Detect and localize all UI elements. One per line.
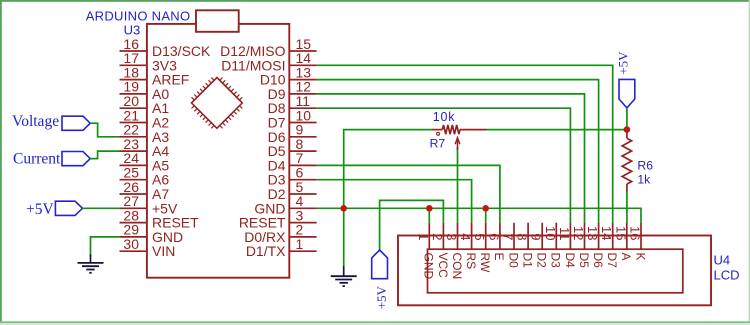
U3 pin 21 A2 — [120, 107, 170, 130]
wire +5V to pin 27 — [83, 207, 120, 209]
flag Voltage shape — [62, 116, 90, 130]
wire +5V flag to node — [626, 108, 628, 130]
svg-text:3: 3 — [444, 233, 459, 240]
svg-text:1k: 1k — [637, 173, 651, 187]
resistor R6 1k — [622, 131, 631, 192]
power flag +5V LCD shape — [372, 250, 388, 279]
wire pin 7 D4 to LCD E — [317, 165, 500, 222]
svg-text:8: 8 — [515, 233, 530, 240]
wire R7 right to +5V node — [486, 129, 627, 131]
power flag +5V top right shape — [619, 79, 635, 108]
U3 pin 25 A6 — [120, 165, 170, 188]
svg-text:Current: Current — [13, 151, 61, 168]
svg-text:1: 1 — [416, 233, 431, 240]
svg-text:11: 11 — [557, 227, 572, 241]
wire Current to pin 23 A4 — [90, 151, 119, 159]
svg-text:13: 13 — [585, 226, 600, 240]
wire GND bus pin 4 to LCD K — [317, 208, 641, 222]
svg-text:GND: GND — [422, 253, 436, 280]
wire R6 bottom to LCD A — [626, 192, 628, 223]
svg-text:9: 9 — [529, 233, 544, 240]
U3 pin 28 RESET — [120, 207, 200, 230]
U3 pin 27 +5V — [120, 193, 178, 216]
svg-text:7: 7 — [501, 233, 516, 240]
svg-text:2: 2 — [430, 233, 445, 240]
U3 pin 13 D10 — [260, 64, 317, 87]
LCD pin 7 D0 — [501, 223, 521, 268]
LCD pin 5 RW — [472, 223, 492, 273]
U3 pin 1 D1/TX — [246, 236, 317, 259]
U3 pin 12 D9 — [268, 79, 317, 102]
wire LCD RW pin 5 to bus — [485, 208, 487, 222]
page border right — [749, 0, 750, 325]
svg-text:5: 5 — [472, 233, 487, 240]
svg-text:A: A — [619, 253, 633, 261]
wire pin 6 D3 to LCD RS — [317, 180, 472, 223]
wire R7 wiper to LCD CON — [457, 147, 459, 223]
U3 pin 8 D5 — [268, 136, 317, 159]
U3 pin 5 D2 — [268, 179, 317, 202]
U3 pin 19 A0 — [120, 79, 170, 102]
U3 usb connector rectangle — [196, 10, 239, 32]
U3 pin 18 AREF — [120, 64, 190, 87]
svg-text:VCC: VCC — [436, 253, 450, 279]
wire pin 13 D10 to LCD D6 — [317, 80, 599, 223]
wire R7 left to GND bus and ground — [344, 130, 432, 267]
LCD pin 11 D4 — [557, 223, 577, 268]
svg-text:D7: D7 — [605, 253, 619, 269]
U3 pin 14 D11/MOSI — [221, 50, 316, 73]
svg-text:12: 12 — [571, 226, 586, 240]
U3 pin 30 VIN — [120, 236, 176, 259]
LCD pin 16 K — [628, 223, 648, 261]
svg-text:16: 16 — [628, 226, 643, 240]
svg-text:4: 4 — [458, 233, 473, 240]
svg-text:10: 10 — [543, 226, 558, 240]
LCD pin 6 E — [486, 223, 506, 261]
U3 pin 7 D4 — [268, 150, 317, 173]
U3 chip diamond graphic — [192, 78, 243, 129]
wire pin 14 D11 to LCD D7 — [317, 65, 613, 222]
resistor R7 10k potentiometer — [432, 125, 486, 150]
svg-text:D6: D6 — [591, 253, 605, 269]
svg-text:+5V: +5V — [616, 51, 631, 75]
wire pin 12 D9 to LCD D5 — [317, 94, 585, 223]
svg-text:CON: CON — [450, 253, 464, 280]
U3 pin 10 D7 — [268, 107, 317, 130]
U3 pin 4 GND — [254, 193, 316, 216]
LCD pin 12 D5 — [571, 223, 591, 268]
svg-text:D3: D3 — [549, 253, 563, 269]
page border bottom — [0, 321, 750, 323]
junction node GND bus / LCD RW — [482, 205, 489, 212]
LCD pin 3 CON — [444, 223, 464, 279]
flag Current shape — [62, 152, 90, 166]
LCD U4 outer box — [398, 236, 711, 306]
svg-text:E: E — [492, 253, 506, 261]
LCD pin 9 D2 — [529, 223, 549, 268]
svg-text:+5V: +5V — [374, 285, 389, 309]
svg-text:RS: RS — [464, 253, 478, 270]
svg-text:VIN: VIN — [152, 243, 175, 259]
U3 pin 24 A5 — [120, 150, 170, 173]
page border left — [0, 0, 2, 325]
U3 pin 6 D3 — [268, 165, 317, 188]
U3 pin 15 D12/MISO — [220, 36, 316, 59]
svg-text:D0: D0 — [506, 253, 520, 269]
U3 pin 2 D0/RX — [244, 222, 316, 245]
LCD pin 13 D6 — [585, 223, 605, 268]
LCD pin 10 D3 — [543, 223, 563, 268]
svg-text:K: K — [633, 253, 647, 261]
junction node +5V / R6 / R7 right — [624, 126, 631, 133]
U3 pin 11 D8 — [268, 93, 317, 116]
svg-text:15: 15 — [613, 226, 628, 240]
power flag +5V left shape — [55, 201, 82, 215]
svg-text:LCD: LCD — [714, 268, 740, 283]
junction node GND bus / R7 left / ground — [340, 205, 347, 212]
ground symbol middle — [331, 266, 357, 286]
op-amp U3 Arduino Nano body — [147, 24, 289, 278]
U3 pin 9 D6 — [268, 122, 317, 145]
svg-text:R7: R7 — [430, 137, 446, 151]
wire pin 11 D8 to LCD D4 — [317, 108, 571, 223]
svg-text:30: 30 — [123, 236, 139, 252]
U3 pin 16 D13/SCK — [120, 36, 212, 59]
U3 pin 3 RESET — [239, 207, 317, 230]
svg-text:D5: D5 — [577, 253, 591, 269]
svg-text:14: 14 — [599, 226, 614, 240]
svg-text:6: 6 — [486, 233, 501, 240]
wire Voltage to pin 22 A3 — [90, 123, 119, 137]
junction node GND bus / LCD GND — [426, 205, 433, 212]
svg-text:R6: R6 — [637, 159, 653, 173]
U3 pin 26 A7 — [120, 179, 170, 202]
LCD pin 4 RS — [458, 223, 478, 269]
U3 pin 23 A4 — [120, 136, 170, 159]
U3 pin 20 A1 — [120, 93, 170, 116]
U3 pin 29 GND — [120, 222, 184, 245]
page border top — [0, 0, 750, 2]
svg-text:D4: D4 — [563, 253, 577, 269]
LCD pin 14 D7 — [599, 223, 619, 268]
U3 pin 17 3V3 — [120, 50, 178, 73]
wire LCD GND pin 1 to bus — [428, 208, 430, 222]
wire pin 29 GND to ground — [91, 237, 120, 257]
U3 pin 22 A3 — [120, 122, 170, 145]
LCD pin 8 D1 — [515, 223, 535, 268]
LCD U4 inner box — [428, 249, 683, 293]
svg-text:D2: D2 — [535, 253, 549, 269]
svg-text:1: 1 — [296, 236, 304, 252]
svg-text:RW: RW — [478, 253, 492, 273]
svg-text:U4: U4 — [714, 253, 731, 268]
LCD pin 1 GND — [416, 223, 436, 280]
wire +5V flag to LCD VCC — [380, 200, 444, 250]
svg-text:10k: 10k — [433, 110, 456, 124]
svg-text:D1: D1 — [521, 253, 535, 269]
ground symbol left — [78, 255, 104, 273]
svg-text:Voltage: Voltage — [12, 113, 59, 130]
LCD pin 15 A — [613, 223, 633, 261]
LCD pin 2 VCC — [430, 223, 450, 278]
svg-text:D1/TX: D1/TX — [246, 243, 286, 259]
svg-text:+5V: +5V — [26, 201, 54, 218]
